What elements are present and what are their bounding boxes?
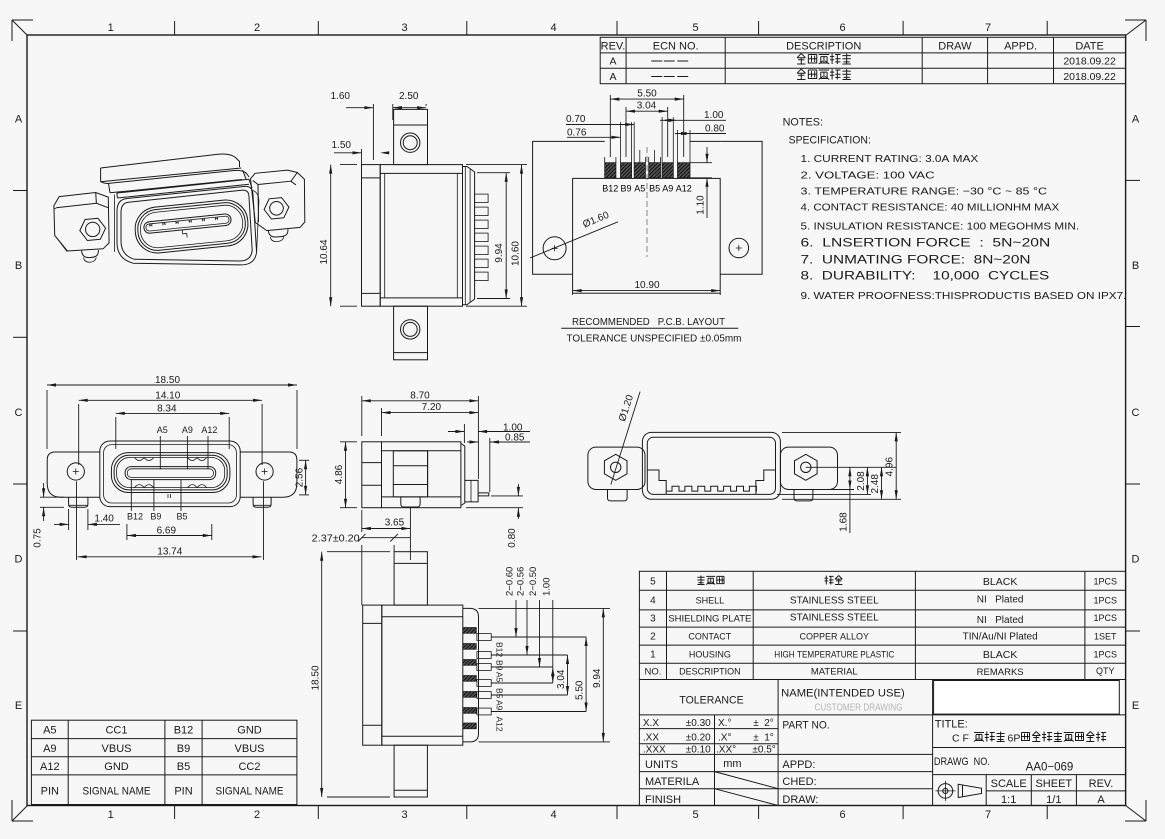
rear view: body inner [647,437,775,494]
rear view: left hex nut [604,454,627,480]
svg-text:1.40: 1.40 [94,514,114,525]
svg-text:3: 3 [401,22,407,34]
svg-text:B9: B9 [621,184,632,194]
svg-text:A: A [1132,113,1140,125]
third angle projection symbol [938,784,953,799]
svg-text:7: 7 [985,22,991,34]
title section [933,714,1126,716]
svg-text:X.X: X.X [643,718,659,729]
svg-text:mm: mm [723,758,741,770]
svg-text:BLACK: BLACK [983,649,1017,661]
svg-text:E: E [1132,700,1139,712]
svg-text:9.94: 9.94 [592,668,603,688]
side view B: bottom post [401,497,420,507]
svg-text:5.50: 5.50 [575,680,586,700]
svg-text:5.50: 5.50 [637,89,657,100]
zone ticks left border [13,190,27,192]
svg-text:6. LNSERTION FORCE : 5N~20N: 6. LNSERTION FORCE : 5N~20N [801,235,1051,249]
title block frame [639,680,1125,806]
dim 2.56 front [299,459,309,461]
pin signal table frame [31,720,297,804]
svg-text:REMARKS: REMARKS [977,667,1024,678]
svg-text:1SET: 1SET [1094,632,1117,642]
side view B: main body [382,442,461,508]
dim 5.50 pcb [609,95,611,157]
svg-text:CC2: CC2 [238,761,260,773]
svg-text:B9: B9 [495,660,505,671]
svg-text:1.68: 1.68 [838,512,849,532]
dim 10.64 [340,164,357,166]
svg-text:7: 7 [985,809,991,821]
bom table frame [639,571,1125,679]
bottom view: main body [382,605,463,745]
svg-text:0.80: 0.80 [507,528,518,548]
dim 10.90 pcb [572,293,574,295]
svg-text:2.48: 2.48 [870,474,881,494]
svg-text:10.60: 10.60 [511,241,522,266]
isometric view: back housing [101,154,242,182]
svg-text:PIN: PIN [41,786,59,798]
svg-text:1PCS: 1PCS [1093,577,1117,587]
scale sheet rev section [933,774,1126,776]
svg-text:B5: B5 [649,184,660,194]
side view B: rear step block [465,480,478,502]
svg-text:10.90: 10.90 [634,280,659,291]
svg-text:5: 5 [692,809,698,821]
svg-text:STAINLESS STEEL: STAINLESS STEEL [790,596,879,607]
pcb layout: mounting hole left [543,237,566,260]
svg-text:A9: A9 [495,700,505,711]
svg-text:2: 2 [254,22,260,34]
svg-text:±0.30: ±0.30 [686,718,711,729]
svg-text:C F: C F [952,733,969,745]
dim 2-0.56 [526,600,528,655]
side view A: bottom mounting tab [394,306,428,360]
pcb layout: center dashed line [646,147,648,257]
svg-text:A5: A5 [495,672,505,683]
svg-text:B9: B9 [177,743,190,755]
svg-text:2.56: 2.56 [295,467,306,487]
svg-text:3: 3 [650,614,656,625]
svg-text:1PCS: 1PCS [1093,596,1117,606]
svg-text:SHEET: SHEET [1035,778,1072,790]
front view: body shell outer [100,441,240,507]
isometric view: shell top face edge [117,179,252,198]
svg-text:0.75: 0.75 [32,528,43,548]
svg-text:3.04: 3.04 [637,101,657,112]
dim 2.50 top [425,104,427,106]
front view: contact bumps top [135,458,207,461]
svg-text:2−0.50: 2−0.50 [528,567,539,596]
dim 2.48 [881,467,883,499]
svg-text:DESCRIPTION: DESCRIPTION [786,41,861,53]
svg-text:AA0−069: AA0−069 [1026,762,1074,774]
dim 14.10 front [78,404,80,465]
rear view: left ear [588,447,645,489]
isometric view: right ear foot [268,229,288,237]
svg-text:CONTACT: CONTACT [688,632,731,642]
isometric view: left ear [54,193,109,252]
svg-text:2. VOLTAGE: 100 VAC: 2. VOLTAGE: 100 VAC [801,169,936,181]
title cn part2 [1022,733,1030,741]
rear view: body outer [642,432,780,499]
svg-text:B5: B5 [176,512,187,522]
dim 0.75 front [40,496,64,498]
bom desc waterproof ring cn [697,576,704,585]
svg-text:NO.: NO. [645,667,662,678]
dim 3.65 [361,510,363,532]
svg-text:A9: A9 [43,743,56,755]
svg-text:2: 2 [254,809,260,821]
rear view: left peg [608,490,628,501]
svg-text:2018.09.22: 2018.09.22 [1063,56,1116,68]
bottom view pin leaders and dims [491,636,516,638]
front view: left drain peg [69,497,88,507]
svg-text:2: 2 [650,632,656,643]
svg-text:BLACK: BLACK [983,576,1017,588]
svg-text:GND: GND [237,725,262,737]
bottom view: smt pins [477,634,491,641]
dim phi1.20 leader [611,392,640,485]
rear view: center line to dims [806,466,896,468]
front view: contact bumps bottom [135,485,207,488]
svg-text:HOUSING: HOUSING [689,650,731,660]
svg-text:ECN NO.: ECN NO. [653,41,699,53]
dim 1.00 bottom [552,600,554,683]
dim 10.60 side [466,164,527,166]
svg-text:D: D [1132,554,1140,566]
pcb layout: solder pads hatched [605,163,616,178]
side view B: rear plate [461,444,465,506]
svg-text:2−0.56: 2−0.56 [516,567,527,596]
svg-text:E: E [15,700,22,712]
svg-text:3.65: 3.65 [385,518,405,529]
svg-text:5: 5 [692,22,698,34]
svg-text:A12: A12 [201,425,217,435]
svg-text:1:1: 1:1 [1001,794,1016,806]
svg-text:A: A [609,71,616,83]
side view B: smt pin [478,493,489,496]
svg-text:0.80: 0.80 [705,124,725,135]
isometric view: tongue contacts [150,224,152,227]
svg-text:C: C [1132,407,1140,419]
side view A: main body [380,165,462,307]
svg-text:1: 1 [108,809,114,821]
svg-text:CHED:: CHED: [782,776,816,788]
svg-text:UNITS: UNITS [645,759,678,771]
isometric view: shell right side sliver [253,191,259,252]
dim 3.04 bottom [567,655,569,695]
dim 1.60 top [372,104,374,160]
svg-text:A9: A9 [662,184,673,194]
dim 4.96 [782,431,901,433]
svg-text:CC1: CC1 [105,725,127,737]
svg-text:SPECIFICATION:: SPECIFICATION: [789,135,871,147]
svg-text:CUSTOMER DRAWING: CUSTOMER DRAWING [815,703,903,714]
svg-text:1PCS: 1PCS [1093,650,1117,660]
rear view: serrated contact strip [666,486,756,491]
front view: body shell inner line [104,445,237,503]
front view: right ear hole [256,463,273,480]
svg-text:DRAWG NO.: DRAWG NO. [934,756,990,768]
svg-text:SIGNAL NAME: SIGNAL NAME [216,786,284,798]
svg-text:8.34: 8.34 [157,403,177,414]
svg-text:± 1°: ± 1° [753,733,774,744]
svg-text:2.37±0.20: 2.37±0.20 [312,533,360,544]
dim 2-0.50 [539,600,541,667]
svg-text:B: B [1132,260,1139,272]
isometric view: oval opening rings [133,198,250,255]
dim 13.74 front [78,556,262,558]
pcb layout: outer board rect [533,141,763,274]
isometric view: shell left side line [114,195,116,253]
svg-text:A: A [609,56,616,68]
svg-text:VBUS: VBUS [102,743,132,755]
svg-text:RECOMMENDED P.C.B. LAYOUT: RECOMMENDED P.C.B. LAYOUT [572,316,726,328]
svg-text:STAINLESS STEEL: STAINLESS STEEL [790,613,879,624]
isometric view: shell outer face [117,186,257,265]
svg-text:NI Plated: NI Plated [977,595,1024,606]
dim 1.68 [815,489,854,491]
side view A: rear pins [475,194,489,203]
svg-text:1PCS: 1PCS [1093,613,1117,623]
side view A: right shield plates [463,167,475,305]
front view: left ear hole [67,463,84,480]
rear view: right ear [780,447,837,489]
corner mark top-right [1125,20,1146,41]
front view: center notch bottom [168,494,171,498]
svg-text:B: B [15,260,22,272]
svg-text:.X°: .X° [718,733,731,744]
dim 9.94 side [477,172,510,174]
svg-text:6.69: 6.69 [157,526,177,537]
front view: left ear [47,452,100,497]
svg-text:4: 4 [650,596,656,607]
svg-text:MATERILA: MATERILA [645,776,700,788]
svg-text:1.60: 1.60 [331,91,351,102]
dim phi1.60 leader [530,222,618,258]
dim 9.94 bottom [479,607,611,609]
side view B: inner block [393,451,427,497]
svg-text:PART NO.: PART NO. [782,719,829,731]
bottom view: pin shoulders hatched [463,628,477,634]
svg-text:B12: B12 [127,512,143,522]
bottom view: right rounded cap [463,608,479,742]
svg-text:14.10: 14.10 [155,390,180,401]
svg-text:REV.: REV. [601,41,626,53]
title cn part1 [974,733,984,742]
isometric view: right ear [251,170,305,231]
svg-text:18.50: 18.50 [155,375,180,386]
svg-text:A12: A12 [40,761,60,773]
svg-text:A5: A5 [157,425,168,435]
svg-text:SHELL: SHELL [696,596,725,606]
dim 8.34 front [115,417,117,449]
front view: oval opening rings [111,453,229,493]
svg-text:5: 5 [650,577,656,588]
svg-text:6: 6 [839,22,845,34]
svg-text:SHIELDING PLATE: SHIELDING PLATE [668,614,751,625]
svg-text:DRAW: DRAW [938,41,972,53]
side view A: bottom tab hole [401,320,420,339]
corner mark top-left [12,20,33,41]
svg-text:TITLE:: TITLE: [935,718,968,730]
svg-text:GND: GND [104,761,129,773]
svg-text:SIGNAL NAME: SIGNAL NAME [83,786,151,798]
dim 1.40 front [68,509,70,530]
svg-text:APPD:: APPD: [782,759,815,771]
isometric view: shell inner face line [121,190,252,261]
svg-text:2−0.60: 2−0.60 [505,567,516,596]
svg-text:1.50: 1.50 [332,140,352,151]
svg-text:B5: B5 [177,761,190,773]
svg-text:2018.09.22: 2018.09.22 [1063,71,1116,83]
isometric view: latch detail below tongue [182,230,187,238]
svg-text:NAME(INTENDED USE): NAME(INTENDED USE) [781,688,905,700]
pcb layout: mounting hole right [729,238,749,258]
svg-text:9.94: 9.94 [494,243,505,263]
svg-text:APPD.: APPD. [1004,41,1037,53]
svg-text:1/1: 1/1 [1046,794,1061,806]
front view: tongue [125,467,216,480]
bottom view: top tab [394,552,427,605]
svg-text:.XX: .XX [643,733,659,744]
svg-text:B5: B5 [495,688,505,699]
dim 1.10 pcb [690,162,712,164]
svg-text:A: A [1097,794,1105,806]
svg-text:A5: A5 [634,184,645,194]
svg-text:2.08: 2.08 [856,471,867,491]
svg-text:3.04: 3.04 [556,669,567,689]
side view A: top mounting tab [394,109,428,164]
bom material silicone cn [825,576,834,585]
dim 2.08 [777,493,871,495]
rear view: inner step left [647,470,666,494]
svg-text:.XXX: .XXX [643,744,666,755]
svg-text:18.50: 18.50 [310,665,321,690]
svg-text:A5: A5 [43,725,56,737]
svg-text:QTY: QTY [1096,666,1115,676]
svg-text:A12: A12 [676,184,692,194]
dim 2-0.60 [515,600,517,637]
svg-text:1.00: 1.00 [541,578,552,597]
revision row 1 chinese text [797,54,805,65]
svg-text:±0.10: ±0.10 [686,744,711,755]
dim 8.70 [361,396,363,436]
drawg no section [933,747,1126,749]
svg-text:1. CURRENT RATING: 3.0A MAX: 1. CURRENT RATING: 3.0A MAX [801,153,979,165]
svg-text:6P: 6P [1008,733,1021,745]
side view A: top tab hole [401,133,420,152]
svg-text:9. WATER PROOFNESS:THISPRODUCT: 9. WATER PROOFNESS:THISPRODUCTIS BASED O… [801,290,1127,302]
dim 18.50 bottom view [327,551,390,553]
side view A: left flange [362,165,381,307]
svg-text:A9: A9 [182,425,193,435]
svg-text:8. DURABILITY: 10,000 CYC: 8. DURABILITY: 10,000 CYCLES [801,268,1050,282]
svg-text:NI Plated: NI Plated [977,615,1024,626]
svg-text:PIN: PIN [174,786,192,798]
svg-text:7. UNMATING FORCE: 8N~20N: 7. UNMATING FORCE: 8N~20N [801,253,1031,267]
svg-text:1.10: 1.10 [696,195,707,215]
svg-text:4.86: 4.86 [334,464,345,484]
svg-text:TIN/Au/NI Plated: TIN/Au/NI Plated [963,632,1038,643]
svg-text:1.00: 1.00 [704,110,724,121]
rear view: right hex nut [795,454,818,480]
svg-text:±0.5°: ±0.5° [752,744,775,755]
svg-text:8.70: 8.70 [410,390,430,401]
rear view: right peg [794,490,813,501]
svg-text:1: 1 [108,22,114,34]
rear view: inner step right [756,470,776,494]
bottom view: bottom tab [394,745,427,797]
svg-text:DESCRIPTION: DESCRIPTION [679,667,741,677]
svg-text:A: A [15,113,23,125]
svg-text:10.64: 10.64 [319,239,330,264]
white name box [934,681,1120,715]
svg-text:3: 3 [401,809,407,821]
pcb layout: pad extension lines up [604,157,606,163]
pcb layout: connector body rect [573,178,721,293]
svg-text:DRAW:: DRAW: [782,794,818,806]
middle rows [778,714,933,716]
svg-text:X.°: X.° [718,718,731,729]
svg-text:C: C [15,407,23,419]
zone ticks bottom border [174,806,176,820]
isometric view: tongue [143,213,231,233]
svg-text:3. TEMPERATURE RANGE: −30 °C ~: 3. TEMPERATURE RANGE: −30 °C ~ 85 °C [801,185,1048,197]
svg-text:13.74: 13.74 [157,547,182,558]
svg-text:.XX°: .XX° [716,744,736,755]
isometric view: left ear hex nut [80,218,106,240]
revision table frame [600,37,1125,83]
svg-text:MATERIAL: MATERIAL [811,667,858,678]
zone ticks right border [1126,179,1140,181]
isometric view: right ear hex nut [264,198,289,219]
dim 18.50 front [46,390,48,449]
svg-text:5. INSULATION RESISTANCE: 100: 5. INSULATION RESISTANCE: 100 MEGOHMS MI… [801,221,1080,233]
bottom view: left flange [363,605,382,745]
svg-text:TOLERANCE: TOLERANCE [679,695,743,707]
svg-text:4.96: 4.96 [885,457,896,477]
svg-text:VBUS: VBUS [235,743,265,755]
svg-text:DATE: DATE [1075,41,1104,53]
svg-text:SCALE: SCALE [991,778,1027,790]
svg-text:B12: B12 [174,725,194,737]
svg-text:FINISH: FINISH [645,794,681,806]
dim 5.50 bottom [585,637,587,712]
svg-text:COPPER ALLOY: COPPER ALLOY [800,632,870,642]
svg-text:4. CONTACT RESISTANCE: 40 MILL: 4. CONTACT RESISTANCE: 40 MILLIONHM MAX [801,202,1060,214]
dim 3.04 pcb [625,107,627,157]
isometric view: waterproof ring band [101,170,250,183]
svg-text:0.70: 0.70 [566,114,586,125]
svg-text:4: 4 [550,22,556,34]
zone ticks top border [174,21,176,35]
svg-text:A12: A12 [495,717,505,732]
revision row 2 chinese text [797,69,805,80]
svg-text:6: 6 [839,809,845,821]
dim 6.69 front [126,524,128,540]
svg-text:1: 1 [650,650,656,661]
svg-text:± 2°: ± 2° [753,718,774,729]
svg-text:HIGH TEMPERATURE PLASTIC: HIGH TEMPERATURE PLASTIC [774,650,894,661]
dim 0.80 small [491,495,523,497]
svg-text:TOLERANCE UNSPECIFIED ±0.05mm: TOLERANCE UNSPECIFIED ±0.05mm [567,333,742,345]
svg-text:B9: B9 [150,512,161,522]
dim 4.86 [340,441,357,443]
svg-text:7.20: 7.20 [422,402,442,413]
svg-text:±0.20: ±0.20 [686,733,711,744]
